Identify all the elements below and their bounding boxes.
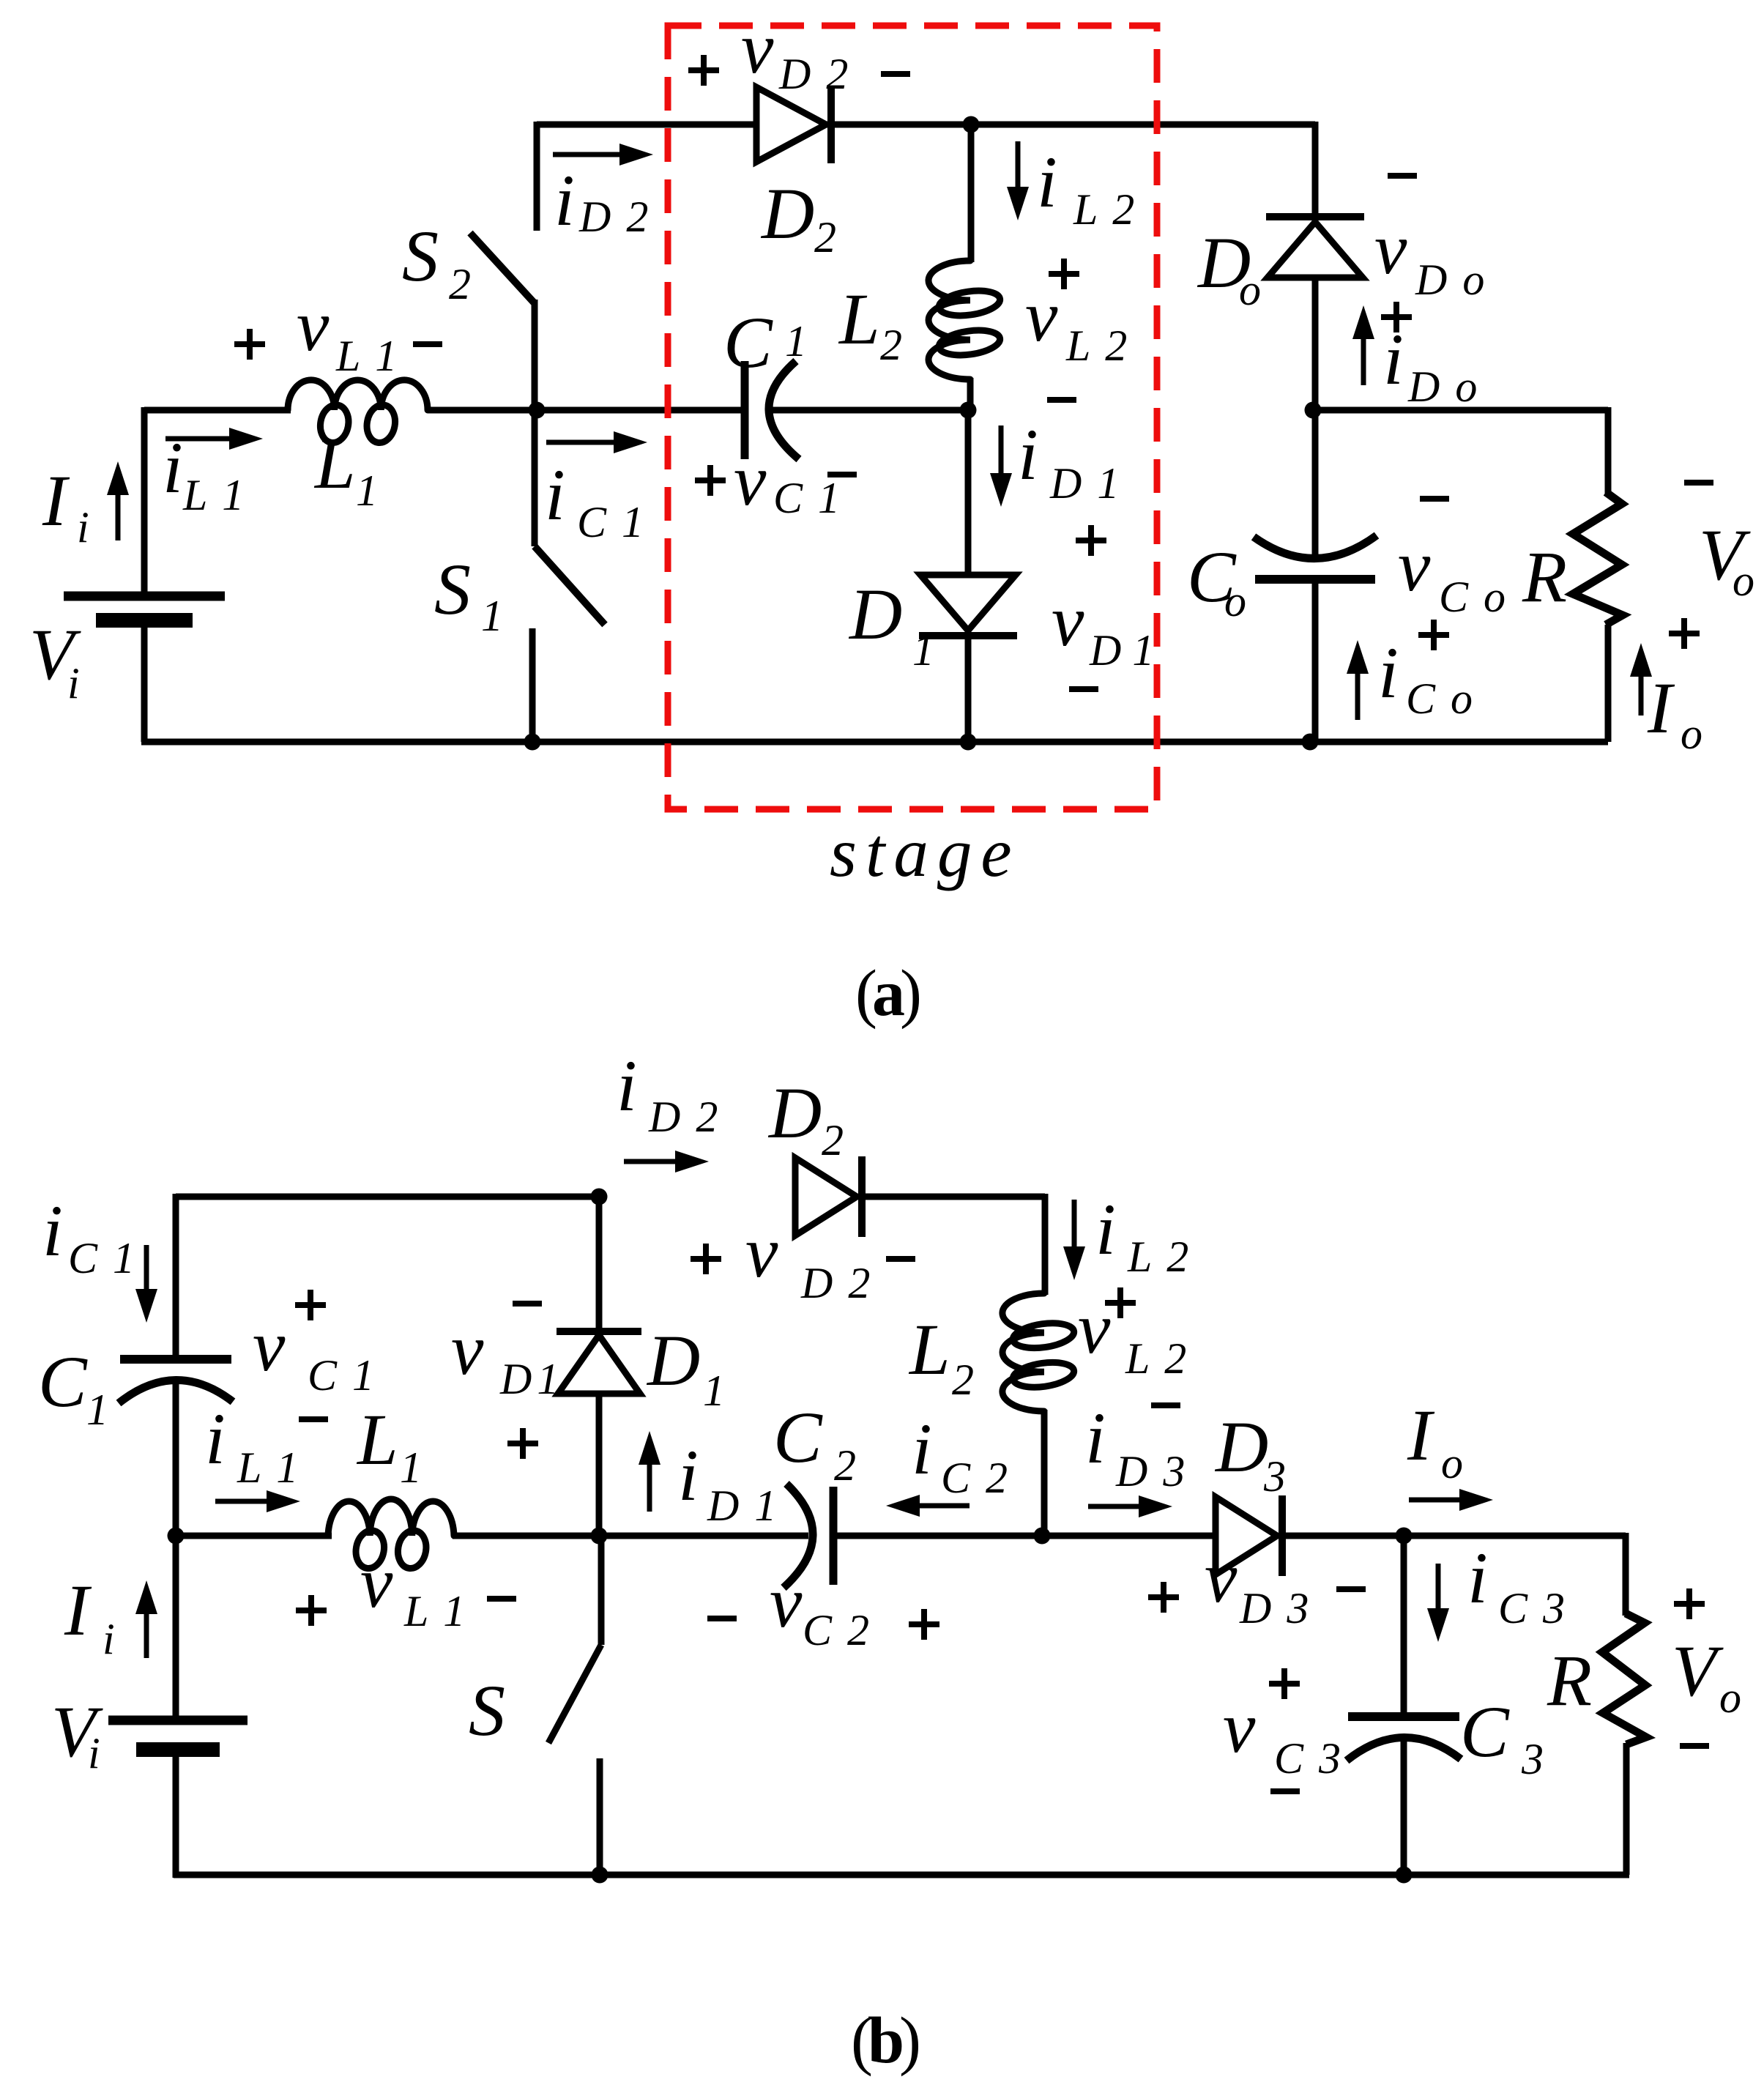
- inductor L1 (b) coil: [328, 1499, 454, 1536]
- junction dot S1-bottom rail: [524, 734, 541, 751]
- node A junction dot: [529, 402, 546, 419]
- svg-text:I: I: [1407, 1394, 1435, 1476]
- svg-text:o: o: [1733, 557, 1757, 605]
- svg-text:C: C: [723, 302, 773, 383]
- svg-text:v: v: [1025, 275, 1058, 357]
- wire: Co to bottom rail: [1312, 579, 1319, 742]
- wire: L2(b) to node E: [1041, 1410, 1048, 1536]
- svg-text:o: o: [1681, 710, 1705, 758]
- junction dot Co-bottom rail: [1302, 734, 1319, 751]
- minus sign v_C1 (b): [299, 1416, 328, 1422]
- minus sign v_Co: [1420, 496, 1449, 502]
- wire: D1(b) to node D: [596, 1394, 603, 1536]
- svg-text:v: v: [1205, 1536, 1238, 1618]
- junction dot S-bottom rail: [592, 1867, 609, 1884]
- svg-text:C 2: C 2: [803, 1606, 871, 1654]
- svg-text:D: D: [848, 573, 902, 655]
- svg-text:i: i: [1095, 1189, 1116, 1270]
- svg-text:1: 1: [785, 317, 809, 365]
- current arrow i_Do: [1361, 339, 1366, 385]
- svg-text:D 1: D 1: [707, 1482, 778, 1530]
- svg-text:1: 1: [912, 626, 937, 674]
- svg-text:i: i: [67, 659, 82, 707]
- svg-text:i: i: [678, 1435, 699, 1516]
- plus sign v_D3 (b): [1148, 1594, 1179, 1600]
- svg-text:(b): (b): [851, 2004, 919, 2077]
- diode D3: [1216, 1497, 1277, 1575]
- diode D2 (b): [795, 1158, 857, 1235]
- minus sign v_D3 (b): [1336, 1586, 1366, 1592]
- current arrow i_C2 (b): [920, 1504, 970, 1509]
- junction dot top rail / L2: [963, 116, 980, 133]
- current arrow I_o (b): [1409, 1498, 1459, 1503]
- inductor L1 coil: [288, 380, 428, 410]
- svg-text:L: L: [356, 1399, 398, 1480]
- capacitor C3: [1348, 1712, 1459, 1721]
- plus sign v_D2 (b): [691, 1256, 721, 1262]
- wire: node B down to D1: [965, 410, 972, 575]
- svg-text:3: 3: [1263, 1452, 1288, 1501]
- svg-text:i: i: [545, 454, 565, 535]
- junction dot D1-bottom rail: [960, 734, 977, 751]
- switch S2 arm (open): [470, 233, 534, 302]
- minus sign v_L2 (b): [1151, 1402, 1180, 1408]
- plus sign v_C1: [695, 477, 726, 483]
- plus sign v_C3 (b): [1269, 1681, 1300, 1687]
- svg-text:S: S: [469, 1670, 505, 1751]
- svg-text:i: i: [103, 1615, 117, 1663]
- wire: S1 bottom stub: [529, 628, 536, 742]
- minus sign v_Do: [1388, 173, 1417, 179]
- plus sign v_D1 (b): [507, 1441, 538, 1446]
- svg-text:C o: C o: [1439, 573, 1508, 621]
- current arrow I_o (a): [1639, 677, 1644, 716]
- plus sign v_L2 (b): [1105, 1300, 1136, 1306]
- wire: L1 to node D: [453, 1533, 599, 1539]
- svg-text:D: D: [760, 173, 814, 254]
- wire: D3 to node F: [1286, 1533, 1404, 1539]
- wire: node C to load R: [1313, 407, 1608, 414]
- node D junction dot: [591, 1528, 608, 1545]
- wire: node F to load corner: [1404, 1533, 1626, 1539]
- svg-text:i: i: [205, 1398, 226, 1479]
- svg-text:C 1: C 1: [308, 1351, 376, 1400]
- svg-text:L 2: L 2: [1125, 1334, 1188, 1383]
- plus sign v_D1: [1076, 538, 1106, 543]
- inductor L2 coil: [928, 261, 970, 379]
- minus sign V_o (a): [1684, 480, 1713, 486]
- wire: mid rail Vi corner to L1: [144, 407, 291, 414]
- wire: L1 to C1 left plate: [428, 407, 743, 414]
- resistor R (b): [1602, 1613, 1646, 1744]
- svg-text:i: i: [88, 1729, 103, 1777]
- svg-text:v: v: [770, 1561, 803, 1643]
- svg-text:L 1: L 1: [403, 1587, 467, 1635]
- plus sign V_o (a): [1669, 631, 1700, 636]
- diode D1: [920, 575, 1016, 631]
- svg-text:R: R: [1547, 1640, 1592, 1721]
- svg-text:v: v: [253, 1305, 286, 1386]
- svg-text:R: R: [1522, 536, 1567, 617]
- plus sign v_C1 (b): [295, 1302, 326, 1308]
- current arrow i_L2 (b): [1072, 1200, 1077, 1246]
- plus sign v_Do bottom: [1381, 314, 1412, 320]
- minus sign v_D2 (b): [886, 1256, 915, 1262]
- svg-text:D 1: D 1: [499, 1355, 556, 1403]
- node F junction dot: [1396, 1528, 1413, 1545]
- wire: S2 pivot to node A: [532, 300, 538, 410]
- svg-text:i: i: [163, 427, 183, 508]
- svg-text:i: i: [1467, 1537, 1488, 1618]
- svg-text:v: v: [1398, 525, 1431, 606]
- svg-text:v: v: [451, 1309, 484, 1390]
- svg-text:i: i: [912, 1408, 932, 1490]
- svg-text:L: L: [838, 278, 880, 360]
- svg-text:v: v: [734, 439, 767, 521]
- svg-text:v: v: [1078, 1287, 1111, 1369]
- svg-text:C 3: C 3: [1498, 1584, 1567, 1632]
- wire: mid rail to L1 (b): [176, 1533, 332, 1539]
- svg-text:I: I: [42, 460, 70, 541]
- svg-text:i: i: [617, 1045, 637, 1126]
- svg-text:D 1: D 1: [1049, 459, 1121, 508]
- current arrow i_L1: [165, 436, 229, 442]
- svg-text:i: i: [42, 1190, 63, 1271]
- wire: circuit (b) bottom rail: [174, 1872, 1629, 1878]
- svg-text:i: i: [1018, 414, 1038, 495]
- current arrow I_i (b): [144, 1614, 149, 1658]
- plus sign v_L1 (b): [296, 1608, 327, 1613]
- minus sign v_D1: [1069, 686, 1098, 692]
- inductor L2 (b) coil: [1002, 1293, 1044, 1411]
- minus sign v_D1 (b): [513, 1301, 542, 1307]
- wire: S2 fixed contact stub down from top rail corner: [534, 122, 540, 231]
- svg-text:v: v: [360, 1542, 393, 1623]
- switch S1 arm (open): [535, 546, 605, 625]
- svg-text:S: S: [402, 215, 439, 297]
- wire: left vertical from mid rail down to battery Vi: [141, 407, 148, 596]
- svg-text:D o: D o: [1415, 256, 1486, 304]
- svg-text:D 2: D 2: [778, 50, 850, 98]
- svg-text:(a): (a): [855, 957, 920, 1030]
- svg-text:o: o: [1441, 1439, 1465, 1487]
- current arrow i_C3 (b): [1436, 1564, 1441, 1608]
- plus sign v_D2: [688, 67, 719, 73]
- current arrow i_L2: [1016, 141, 1021, 187]
- svg-text:i: i: [1085, 1397, 1106, 1479]
- wire: R(b) to bottom rail corner: [1623, 1743, 1630, 1875]
- wire: Do to node C: [1312, 278, 1319, 410]
- wire: node E to diode D3: [1042, 1533, 1217, 1539]
- svg-text:v: v: [1223, 1687, 1256, 1768]
- svg-text:I: I: [1647, 667, 1675, 748]
- current arrow i_D1: [999, 425, 1004, 473]
- minus sign v_L1: [413, 341, 442, 347]
- wire: C1(b) to mid rail: [173, 1380, 179, 1536]
- resistor R: [1573, 492, 1623, 625]
- svg-text:1: 1: [86, 1386, 111, 1434]
- wire: top rail node down to L2: [968, 124, 975, 262]
- wire: top node down to diode D1 (b): [596, 1197, 603, 1331]
- svg-text:2: 2: [814, 213, 838, 261]
- capacitor C1: [741, 361, 749, 459]
- svg-text:stage: stage: [830, 814, 1021, 891]
- svg-text:L 1: L 1: [182, 471, 246, 519]
- svg-text:D 3: D 3: [1115, 1447, 1187, 1495]
- wire: battery to bottom rail: [141, 620, 148, 742]
- current arrow i_D2: [553, 152, 619, 157]
- svg-text:L 1: L 1: [237, 1443, 300, 1492]
- capacitor C2: [830, 1487, 838, 1585]
- current arrow i_L1 (b): [215, 1499, 267, 1504]
- svg-text:1: 1: [400, 1443, 424, 1492]
- wire: node C down to capacitor Co: [1312, 410, 1319, 555]
- wire: circuit (a) bottom rail: [141, 739, 1608, 746]
- plus sign v_L1: [234, 341, 265, 347]
- svg-text:D 1: D 1: [1089, 626, 1154, 674]
- minus sign v_L1 (b): [487, 1596, 516, 1602]
- svg-text:v: v: [1052, 580, 1084, 661]
- wire: S bottom stub: [597, 1758, 603, 1875]
- svg-text:i: i: [1383, 319, 1404, 400]
- wire: D2(b) to corner: [864, 1194, 1045, 1200]
- svg-text:D 2: D 2: [800, 1259, 872, 1307]
- svg-text:1: 1: [481, 592, 505, 640]
- wire: node D to capacitor C2: [599, 1533, 808, 1539]
- svg-text:C: C: [773, 1397, 823, 1478]
- current arrow i_D3 (b): [1088, 1504, 1139, 1509]
- svg-text:i: i: [554, 160, 575, 241]
- junction dot top rail / D1 (b): [591, 1189, 608, 1205]
- svg-text:v: v: [1374, 208, 1407, 289]
- svg-text:C 3: C 3: [1274, 1734, 1343, 1783]
- minus sign v_D2: [881, 71, 910, 77]
- svg-text:L 2: L 2: [1127, 1233, 1191, 1281]
- wire: C2 to node E: [833, 1533, 1042, 1539]
- svg-text:C 1: C 1: [68, 1234, 137, 1282]
- current arrow i_C1: [546, 440, 614, 445]
- minus sign v_L2: [1047, 397, 1076, 403]
- wire: C3 to bottom rail: [1401, 1737, 1407, 1875]
- wire: node A down to S1 pivot: [532, 410, 538, 546]
- switch S arm (open): [548, 1645, 601, 1743]
- svg-text:i: i: [1037, 141, 1057, 223]
- current arrow i_D2 (b): [624, 1159, 675, 1164]
- wire: battery(b) to bottom rail: [173, 1745, 179, 1878]
- svg-text:D 2: D 2: [648, 1093, 720, 1141]
- svg-text:2: 2: [834, 1441, 858, 1490]
- wire: R to bottom rail: [1605, 625, 1612, 742]
- capacitor Co: [1255, 575, 1375, 584]
- svg-text:2: 2: [952, 1356, 976, 1404]
- svg-text:v: v: [741, 7, 774, 89]
- plus sign v_Co: [1418, 632, 1449, 638]
- svg-text:C: C: [38, 1341, 88, 1422]
- svg-text:1: 1: [703, 1367, 727, 1415]
- wire: Vi(b) branch from node down: [173, 1536, 179, 1721]
- diode D1 (b): [558, 1335, 640, 1394]
- svg-text:o: o: [1719, 1673, 1743, 1722]
- wire: node D down to switch S pivot: [598, 1536, 605, 1645]
- svg-text:D: D: [1214, 1406, 1268, 1487]
- svg-text:V: V: [1672, 1630, 1724, 1712]
- wire: node F down to capacitor C3: [1401, 1536, 1407, 1717]
- svg-text:i: i: [77, 503, 92, 551]
- svg-text:C 1: C 1: [577, 498, 646, 546]
- svg-text:L 2: L 2: [1065, 322, 1129, 370]
- wire: down to resistor R: [1605, 407, 1612, 494]
- current arrow i_D1 (b): [647, 1465, 652, 1512]
- wire: corner down to resistor R (b): [1623, 1533, 1629, 1616]
- svg-text:C 1: C 1: [773, 474, 842, 522]
- svg-text:C o: C o: [1406, 674, 1475, 723]
- svg-text:2: 2: [449, 260, 473, 308]
- wire: D1 to bottom rail: [965, 636, 972, 742]
- battery Vi (b): [108, 1716, 248, 1725]
- svg-text:D: D: [767, 1072, 822, 1153]
- svg-text:i: i: [1378, 632, 1399, 713]
- svg-text:o: o: [1224, 577, 1248, 625]
- plus sign V_o (b): [1674, 1601, 1705, 1607]
- node C junction dot: [1305, 402, 1322, 419]
- wire: circuit (a) top rail from S2 corner to Do corner: [537, 122, 1315, 128]
- svg-text:1: 1: [356, 467, 380, 515]
- diode Do: [1268, 222, 1363, 278]
- current arrow I_i: [116, 495, 121, 540]
- svg-text:2: 2: [880, 321, 904, 369]
- svg-text:C: C: [1460, 1691, 1510, 1772]
- svg-text:C 2: C 2: [941, 1454, 1010, 1502]
- wire: top rail corner down to diode Do: [1312, 122, 1319, 217]
- svg-text:D o: D o: [1407, 363, 1479, 411]
- wire: C1(b) branch top: [173, 1194, 179, 1359]
- wire: circuit (b) top rail: [176, 1194, 599, 1200]
- current arrow i_Co: [1355, 674, 1361, 720]
- node E junction dot: [1034, 1528, 1051, 1545]
- svg-text:D 2: D 2: [578, 193, 650, 241]
- red dashed stage boundary box: [668, 26, 1157, 809]
- plus sign v_L2: [1049, 271, 1079, 277]
- svg-text:D 3: D 3: [1239, 1584, 1311, 1632]
- svg-text:2: 2: [822, 1116, 846, 1164]
- node B junction dot: [960, 402, 977, 419]
- minus sign v_C2 (b): [707, 1616, 737, 1621]
- node: C1/Vi/L1 junction dot: [168, 1528, 185, 1545]
- svg-text:I: I: [64, 1569, 92, 1651]
- wire: L2 to node B: [967, 378, 974, 410]
- svg-text:D: D: [646, 1320, 700, 1401]
- minus sign v_C1: [827, 472, 857, 477]
- svg-text:v: v: [745, 1211, 778, 1293]
- svg-text:L: L: [313, 423, 356, 504]
- svg-text:o: o: [1239, 266, 1263, 314]
- wire: corner down to L2 (b): [1042, 1194, 1049, 1295]
- minus sign v_C3 (b): [1270, 1788, 1300, 1794]
- svg-text:v: v: [297, 285, 330, 366]
- capacitor C1 (b): [120, 1355, 231, 1364]
- diode D2: [756, 87, 826, 162]
- svg-text:L: L: [908, 1309, 950, 1390]
- svg-text:3: 3: [1521, 1735, 1546, 1783]
- svg-text:L 1: L 1: [335, 332, 399, 380]
- svg-text:L 2: L 2: [1073, 185, 1136, 234]
- junction dot C3-bottom rail: [1396, 1867, 1413, 1884]
- battery Vi: [64, 592, 225, 601]
- plus sign v_C2 (b): [909, 1621, 939, 1627]
- svg-text:S: S: [434, 549, 471, 630]
- wire: C1 to node B: [771, 407, 968, 414]
- current arrow i_C1 (b): [144, 1245, 149, 1289]
- minus sign V_o (b): [1680, 1743, 1709, 1749]
